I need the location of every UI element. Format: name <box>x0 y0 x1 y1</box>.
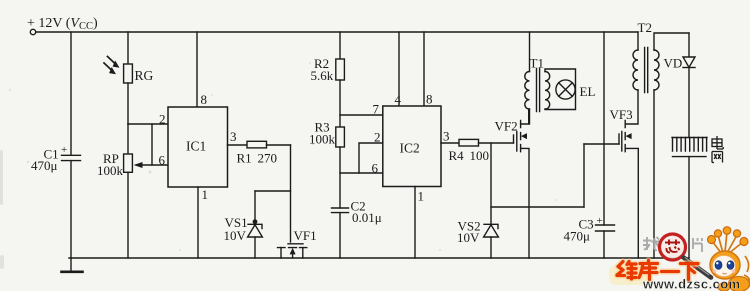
svg-text:EL: EL <box>580 84 596 99</box>
wire grid to ground <box>688 157 690 258</box>
svg-text:T2: T2 <box>638 20 652 35</box>
svg-text:6: 6 <box>159 153 166 168</box>
svg-text:VF3: VF3 <box>610 107 633 122</box>
wire VF3 gate horizontal <box>584 143 619 145</box>
svg-text:5.6k: 5.6k <box>311 68 334 83</box>
svg-text:10V: 10V <box>457 230 480 245</box>
capacitor C1 <box>62 155 81 160</box>
wire node drop to pin6 net <box>151 124 153 165</box>
node grid chinese label <box>712 136 723 163</box>
wire VS2 branch vertical <box>490 143 492 224</box>
svg-text:8: 8 <box>201 92 208 107</box>
wire RP to ground rail <box>127 172 129 258</box>
wire VS2 node to VF3 gate net <box>491 206 584 208</box>
svg-text:RG: RG <box>135 68 154 83</box>
wire IC2 pin3 out <box>441 142 459 144</box>
svg-text:+: + <box>597 215 603 227</box>
wire RG to node <box>127 83 129 124</box>
wire T1 secondary loop <box>545 69 576 110</box>
wire VS2 to ground <box>490 237 492 258</box>
svg-text:8: 8 <box>426 92 433 107</box>
wire VS1 to ground <box>254 237 256 258</box>
watermark glow <box>617 261 698 280</box>
watermark magnifier circle <box>660 234 686 260</box>
resistor R3 100k <box>336 127 345 147</box>
wire RG branch vertical <box>127 32 129 64</box>
svg-text:+: + <box>61 144 67 156</box>
RP wiper arrow <box>134 162 143 168</box>
svg-text:1: 1 <box>202 187 209 202</box>
wire T1 primary top <box>529 32 531 72</box>
resistor R4 100 <box>459 139 479 146</box>
watermark findchip text <box>643 237 702 252</box>
transformer T1 <box>525 72 530 110</box>
wire R4 to VF2 gate <box>479 142 514 144</box>
svg-text:R1270: R1270 <box>237 151 278 166</box>
svg-text:www.dzsc.com: www.dzsc.com <box>642 277 741 291</box>
wire IC2 pin2 link <box>359 143 383 173</box>
wire IC2 pin7 <box>340 114 383 116</box>
wire C3 to ground <box>603 231 605 258</box>
wire C3 branch vertical <box>603 32 605 225</box>
wire R2 branch vertical <box>339 32 341 59</box>
svg-text:VD: VD <box>664 56 683 71</box>
wire VS1 top <box>254 191 256 224</box>
ground <box>70 258 72 272</box>
svg-text:100k: 100k <box>97 163 124 178</box>
watermark red brand text <box>617 261 698 280</box>
wire T2 secondary bottom to ground <box>653 90 655 258</box>
wire ground rail bottom <box>69 257 689 259</box>
wire C2 to ground <box>339 213 341 258</box>
watermark cream blob <box>609 265 647 285</box>
zener VS2 <box>484 224 498 228</box>
wire R1 to VF1 gate net <box>267 144 291 146</box>
resistor R1 270 <box>247 141 267 148</box>
svg-text:3: 3 <box>443 129 450 144</box>
svg-text:4: 4 <box>395 92 402 107</box>
wire T2 secondary top to VD <box>654 33 689 50</box>
svg-text:VF1: VF1 <box>294 228 317 243</box>
lamp EL <box>556 80 575 99</box>
wire C1 to ground rail <box>70 161 72 258</box>
svg-text:6: 6 <box>372 161 379 176</box>
capacitor C2 <box>332 208 349 213</box>
svg-text:470μ: 470μ <box>564 229 591 244</box>
wire IC2 pin8 <box>423 32 425 106</box>
resistor R2 5.6k <box>336 59 345 80</box>
wire IC2 pin4 <box>398 32 400 106</box>
wire VF3 gate net riser <box>583 144 585 207</box>
wire R3 to C2 <box>339 147 341 208</box>
watermark magnifier handle <box>684 258 712 278</box>
svg-text:IC2: IC2 <box>400 141 420 156</box>
svg-text:470μ: 470μ <box>31 158 58 173</box>
scan smudges <box>0 62 557 269</box>
op-amp IC1 <box>168 107 228 187</box>
wire VD to grid symbol <box>688 68 690 138</box>
svg-text:100k: 100k <box>309 131 336 146</box>
wire R2 to pin7 node <box>339 80 341 127</box>
wire node to IC1 pin2 <box>128 123 170 125</box>
wire branch to VS1 <box>255 190 291 192</box>
wire IC2 pin6 <box>340 172 383 174</box>
svg-text:2: 2 <box>159 112 166 127</box>
wire RP top <box>127 124 129 154</box>
diode VD <box>688 33 690 57</box>
svg-text:VF2: VF2 <box>495 119 518 134</box>
svg-text:2: 2 <box>374 130 381 145</box>
wire top +12V rail <box>36 31 638 33</box>
svg-text:IC1: IC1 <box>186 139 206 154</box>
resistor RP <box>124 154 133 172</box>
wire IC2 pin1 to ground <box>414 187 416 259</box>
svg-text:10V: 10V <box>224 228 247 243</box>
svg-text:0.01μ: 0.01μ <box>352 210 382 225</box>
wire IC1 pin6 to RP wiper <box>141 164 170 166</box>
power terminal +12V <box>30 29 35 34</box>
capacitor C3 <box>596 225 615 231</box>
junction VS1 <box>253 219 258 224</box>
wire VF1 gate vertical <box>290 145 292 242</box>
zener VS1 <box>248 224 262 228</box>
node mains grid symbol <box>672 137 707 139</box>
watermark mascot <box>708 227 750 291</box>
wire IC1 pin8 <box>196 32 198 107</box>
svg-text:3: 3 <box>230 129 237 144</box>
svg-text:7: 7 <box>373 102 380 117</box>
wire T1 primary bottom to VF2 drain <box>529 109 531 124</box>
wire C1 branch vertical <box>70 32 72 155</box>
op-amp IC2 <box>383 106 441 187</box>
wire IC1 pin3 out <box>228 144 248 146</box>
svg-text:1: 1 <box>418 189 425 204</box>
svg-text:R4100: R4100 <box>449 148 490 163</box>
wire IC1 pin1 to ground <box>197 187 199 258</box>
resistor RG (photoresistor) <box>124 64 133 83</box>
